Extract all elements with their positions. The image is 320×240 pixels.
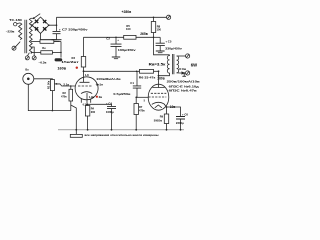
terminal speaker 1: [186, 54, 190, 58]
svg-text:+280в: +280в: [122, 10, 132, 14]
node C7 tap: [56, 24, 58, 26]
diode VD4: [35, 27, 38, 30]
output tube V2 control grid: [148, 96, 166, 98]
wire jack to pot: [34, 78, 53, 81]
node bridge plus: [48, 24, 50, 26]
svg-text:R7: R7: [139, 105, 143, 109]
transformer T1 primary winding: [19, 23, 22, 40]
terminal filament 2: [32, 56, 36, 60]
wire ground diagonal to chassis drop: [71, 105, 77, 130]
svg-text:+: +: [59, 27, 61, 31]
svg-text:330µ/450v: 330µ/450v: [165, 47, 182, 51]
svg-text:C2: C2: [106, 37, 110, 41]
terminal mains: [12, 46, 16, 50]
svg-text:1000µ: 1000µ: [106, 110, 114, 114]
svg-text:1.9в: 1.9в: [89, 95, 95, 99]
node output anode top: [158, 70, 160, 72]
terminal filament 1: [25, 56, 29, 60]
node bus R4: [87, 129, 89, 131]
resistor R4 200: [86, 104, 88, 105]
wire secondary to terminal 1: [177, 55, 186, 57]
pot wiper arrow: [56, 83, 60, 85]
wire B+ filter line: [136, 36, 154, 38]
svg-text:5: 5: [144, 99, 146, 102]
terminal +280в output: [167, 15, 171, 19]
output tube V2 6П3С envelope: [148, 84, 169, 110]
node output grid: [135, 97, 137, 99]
svg-text:100: 100: [126, 27, 131, 31]
resistor R10 heater row1: [31, 41, 40, 43]
output tube V2 anode: [153, 71, 165, 87]
node bus chassis: [75, 129, 77, 131]
output transformer core: [172, 54, 174, 74]
capacitor C2 100µ/450v: [115, 37, 117, 44]
svg-text:250в/100мА/10в: 250в/100мА/10в: [167, 80, 200, 84]
svg-text:R3: R3: [72, 56, 76, 60]
svg-text:Rн: Rн: [42, 46, 46, 50]
svg-text:С1: С1: [130, 81, 134, 85]
wire tap to filament terminal 2: [31, 47, 34, 56]
capacitor C1 0.5µ/250в coupling: [136, 71, 138, 86]
bridge rectifier VD1-VD4 diamond: [32, 17, 49, 33]
ground stub speaker: [182, 73, 186, 76]
capacitor C4 1000µ: [87, 104, 111, 106]
terminal speaker 2: [186, 71, 190, 75]
svg-text:8 Ом: 8 Ом: [179, 67, 186, 71]
svg-text:0.5µ/250в: 0.5µ/250в: [113, 92, 130, 96]
svg-text:R6 33-47к: R6 33-47к: [139, 75, 156, 79]
svg-text:470к: 470к: [61, 94, 67, 98]
svg-text:ТС-180: ТС-180: [9, 18, 22, 22]
wire secondary to filament terminal 1: [27, 53, 29, 56]
node bus R7: [135, 129, 137, 131]
svg-text:R1 50к: R1 50к: [47, 80, 51, 89]
wire fuse to primary top: [17, 22, 20, 25]
svg-text:R9: R9: [160, 114, 164, 118]
svg-text:100µ/450v: 100µ/450v: [118, 48, 136, 52]
svg-text:Вх: Вх: [25, 67, 29, 71]
svg-text:15к/2вт: 15к/2вт: [61, 60, 80, 64]
svg-text:100в/8мА/-2в: 100в/8мА/-2в: [96, 77, 121, 81]
wire bridge minus to ground: [41, 33, 57, 39]
wire bridge plus to rail riser: [49, 17, 57, 25]
node pot ground: [52, 110, 54, 112]
wire secondary top tap to switch: [31, 17, 34, 19]
resistor R9 500Ом: [166, 107, 168, 114]
output transformer secondary: [177, 56, 179, 73]
node cathode red dot: [96, 96, 98, 98]
wire terminal to primary bottom: [16, 42, 21, 47]
wire cathode lead: [164, 104, 166, 107]
node bus C6: [180, 129, 182, 131]
node heater join: [60, 52, 62, 54]
transformer T1 secondary winding: [29, 18, 32, 53]
ground under C2: [112, 56, 120, 58]
resistor R2 470к: [70, 85, 72, 87]
wire jack ground drop: [28, 84, 71, 110]
wire secondary to terminal 2: [177, 72, 182, 74]
node speaker ground: [183, 72, 185, 74]
svg-text:Rа=3.5к: Rа=3.5к: [149, 63, 166, 67]
node anode OT junction: [158, 75, 160, 77]
ground under C7: [52, 39, 62, 41]
diode VD3: [43, 27, 46, 30]
output tube V2 cathode: [152, 102, 165, 104]
wire B+ drop to output transformer: [154, 37, 170, 55]
ground arrow speaker: [181, 71, 185, 74]
wire grid lead: [55, 84, 76, 86]
svg-text:500Ом: 500Ом: [154, 119, 162, 123]
potentiometer R1 50к: [50, 80, 54, 91]
node triode cathode: [87, 104, 89, 106]
heater connector blob: [55, 58, 63, 61]
svg-text:6н1п: 6н1п: [96, 83, 103, 87]
chassis ground symbol: [75, 130, 77, 135]
wire tap to bridge left vertex: [31, 24, 32, 26]
resistor R7 470к: [135, 97, 137, 103]
svg-text:200: 200: [91, 110, 96, 114]
node bus R9: [166, 129, 168, 131]
resistor R3 15к/2вт: [83, 37, 85, 56]
wire ground bus: [58, 129, 184, 131]
svg-text:~6.3в: ~6.3в: [38, 60, 46, 64]
svg-text:+ С5: + С5: [165, 39, 171, 43]
node C2 tap: [115, 37, 117, 39]
svg-text:R4: R4: [91, 106, 95, 110]
wire pot bottom: [51, 91, 53, 111]
svg-text:С7 330µ/450v: С7 330µ/450v: [62, 28, 88, 32]
svg-text:150: 150: [157, 27, 162, 31]
resistor R11 heater row2: [31, 51, 41, 53]
svg-text:+ С4: + С4: [106, 102, 112, 106]
node anode red dot: [76, 67, 78, 69]
svg-text:2в: 2в: [99, 95, 103, 99]
svg-text:160в: 160в: [57, 66, 66, 70]
svg-text:2200µ: 2200µ: [176, 121, 184, 125]
svg-text:+: +: [117, 38, 119, 42]
resistor R6 33-47к feedback: [140, 69, 154, 73]
wire anode coupling line: [84, 70, 140, 72]
node bus C4: [111, 129, 113, 131]
switch SA1: [33, 18, 34, 19]
triode V1 heater: [81, 99, 90, 103]
svg-text:265в: 265в: [140, 32, 148, 36]
svg-text:470к: 470к: [139, 108, 145, 112]
output tube V2 heater: [155, 105, 162, 108]
svg-text:2.1в: 2.1в: [63, 83, 69, 87]
node C1 tap: [136, 71, 138, 73]
wire filter line left: [84, 36, 124, 38]
svg-text:~220в: ~220в: [6, 30, 15, 34]
triode V1 grid: [78, 85, 92, 87]
fuse FU1: [14, 23, 17, 26]
diode VD1: [35, 20, 38, 23]
output transformer primary: [159, 55, 170, 76]
transformer T1 core: [25, 20, 27, 53]
triode V1 6Н1П envelope: [75, 77, 98, 100]
svg-text:R2: R2: [63, 91, 67, 95]
wire +280в rail: [57, 16, 167, 18]
svg-text:6П3С №6.47в: 6П3С №6.47в: [169, 89, 197, 93]
svg-text:+ С6: + С6: [182, 113, 188, 117]
diode VD2: [43, 20, 46, 23]
resistor R5 100: [124, 35, 136, 39]
triode V1 anode plate: [80, 71, 90, 82]
node 265в: [153, 37, 155, 39]
wire heater join: [60, 42, 62, 58]
svg-text:6W: 6W: [191, 62, 197, 67]
triode V1 cathode: [81, 92, 92, 94]
capacitor C5 330µ/450v: [154, 36, 161, 38]
ground under C5: [156, 50, 165, 52]
svg-text:все напряжения относительно ша: все напряжения относительно шасси измере…: [85, 134, 159, 137]
capacitor C7 330µ/450v filter: [56, 25, 58, 31]
svg-text:1.8: 1.8: [85, 73, 89, 77]
node output cathode: [166, 106, 168, 108]
capacitor C6 2200µ: [167, 107, 181, 116]
node triode anode: [83, 70, 85, 72]
wire grid to output tube: [136, 96, 148, 98]
resistor R8 150: [153, 17, 155, 19]
output tube V2 screen grid: [151, 92, 167, 94]
